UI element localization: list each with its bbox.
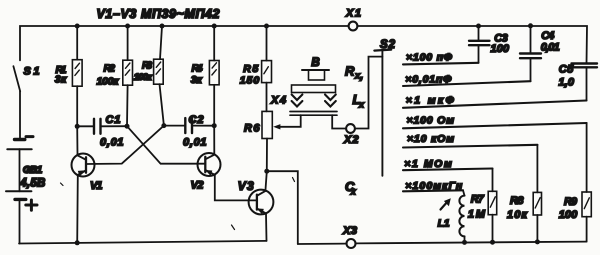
svg-text:V1: V1 [90, 180, 103, 192]
svg-text:×1 мкФ: ×1 мкФ [406, 94, 455, 106]
svg-text:0,01: 0,01 [541, 41, 560, 53]
wire bottom-left rail [19, 241, 267, 244]
svg-text:3к: 3к [55, 74, 67, 86]
junction dot R1 top [75, 24, 80, 29]
resistor R3 [134, 26, 164, 126]
svg-text:×10 кОм: ×10 кОм [407, 133, 454, 145]
junction dot R2 top [125, 24, 130, 29]
svg-text:×100 пФ: ×100 пФ [406, 51, 453, 63]
junction dot C1 right / R2 bottom [125, 124, 130, 129]
node X2 [346, 124, 355, 133]
svg-text:3к: 3к [191, 74, 203, 86]
svg-text:R9: R9 [564, 196, 578, 208]
svg-text:150: 150 [240, 75, 260, 87]
svg-text:C5: C5 [559, 63, 574, 75]
range ×1 мкФ [403, 94, 587, 107]
transistor V1 [72, 126, 103, 243]
svg-text:S1: S1 [24, 66, 40, 78]
junction dot R3 bottom [161, 123, 166, 128]
range ×10 кОм [403, 133, 537, 147]
svg-text:R6: R6 [244, 122, 260, 134]
wire battery to bottom rail [19, 199, 21, 243]
range ×100 пФ [403, 51, 479, 64]
transistor V2 [191, 126, 257, 201]
battery GB1 [6, 137, 45, 211]
svg-text:10к: 10к [507, 209, 528, 221]
wire X2 to S2 [355, 57, 382, 129]
svg-text:x: x [350, 187, 357, 197]
transistor V3 [238, 171, 274, 241]
junction dot R4 top [212, 24, 217, 29]
svg-text:B: B [311, 57, 319, 69]
svg-text:X1: X1 [345, 8, 361, 20]
resistor R4 [191, 26, 219, 126]
svg-text:C4: C4 [541, 30, 554, 42]
inductor L1 [438, 190, 465, 242]
svg-text:GB1: GB1 [23, 164, 43, 176]
svg-text:R2: R2 [104, 63, 116, 75]
potentiometer R6 [244, 111, 272, 168]
junction dot L1 bottom [462, 240, 467, 245]
resistor R8 [507, 145, 542, 242]
junction dot R3 top [160, 24, 165, 29]
svg-text:R: R [345, 64, 355, 79]
svg-text:C1: C1 [106, 114, 121, 126]
range ×0,01пФ [403, 74, 531, 86]
capacitor C3 [469, 26, 510, 63]
capacitor C4 [520, 26, 560, 81]
svg-text:4,5В: 4,5В [19, 178, 45, 190]
junction dot C4 top [528, 23, 533, 28]
wire X3 rail right [356, 242, 587, 244]
svg-text:C2: C2 [189, 114, 204, 126]
junction dot R4 bottom [212, 123, 217, 128]
wire cross-coupling diagonal R3 to V1 base [86, 126, 164, 164]
resistor R9 [559, 123, 592, 242]
capacitor C5 [559, 63, 598, 100]
svg-text:100к: 100к [97, 76, 120, 88]
junction dot V3 collector / R6 [264, 169, 269, 174]
svg-text:R8: R8 [510, 195, 524, 207]
junction dot mid V1 collector [75, 124, 80, 129]
svg-text:X4: X4 [270, 95, 286, 107]
switch S1 [13, 66, 20, 91]
svg-text:,: , [359, 68, 363, 82]
resistor R2 [97, 26, 133, 126]
svg-text:S2: S2 [380, 39, 396, 51]
svg-text:R3: R3 [142, 61, 152, 72]
node X1 [349, 22, 358, 31]
resistor R7 [468, 169, 497, 243]
junction dot R7 bottom [490, 240, 495, 245]
svg-text:0,01: 0,01 [100, 136, 124, 148]
wire button left contact to R6 wiper [279, 115, 301, 127]
resistor R5 [240, 26, 272, 111]
wire cross-coupling diagonal R2 to V2 base [127, 126, 205, 164]
junction dot R5 top [264, 24, 269, 29]
junction dot C3 top [476, 24, 481, 29]
wire top rail [20, 26, 587, 64]
svg-text:R4: R4 [192, 63, 203, 75]
capacitor C1 [77, 114, 127, 148]
range ×100 мкГн [403, 180, 463, 192]
node X3 [298, 243, 346, 245]
svg-text:100: 100 [491, 43, 510, 55]
svg-text:0,01: 0,01 [183, 136, 207, 148]
svg-text:100к: 100к [134, 72, 153, 83]
svg-text:×100 Ом: ×100 Ом [407, 114, 455, 126]
svg-text:1,0: 1,0 [559, 77, 575, 89]
svg-text:1М: 1М [468, 208, 486, 220]
range ×1 МОм [403, 158, 493, 170]
svg-text:V1–V3 МП39~МП42: V1–V3 МП39~МП42 [97, 7, 220, 21]
svg-text:V2: V2 [191, 180, 204, 192]
switch S2 [374, 39, 395, 176]
svg-text:R7: R7 [471, 194, 485, 206]
svg-text:V3: V3 [238, 179, 254, 193]
svg-text:R5: R5 [243, 63, 258, 75]
wire S1 to battery [19, 91, 21, 138]
wire V3 collector node to X3 column [267, 171, 298, 244]
range ×100 Ом [403, 114, 587, 128]
svg-text:x: x [358, 100, 365, 110]
push button B [290, 57, 337, 115]
svg-text:L1: L1 [438, 217, 450, 229]
resistor R1 [55, 26, 82, 126]
svg-text:X3: X3 [342, 225, 357, 237]
junction dot R8 bottom [535, 239, 540, 244]
svg-text:X2: X2 [343, 134, 359, 146]
R6 wiper arrowhead [273, 124, 280, 129]
svg-text:100: 100 [559, 209, 578, 221]
capacitor C2 [164, 114, 214, 148]
speck marks [61, 183, 64, 186]
junction dot V1 emitter on rail [75, 240, 80, 245]
wire button right contact to X2 [332, 115, 346, 128]
